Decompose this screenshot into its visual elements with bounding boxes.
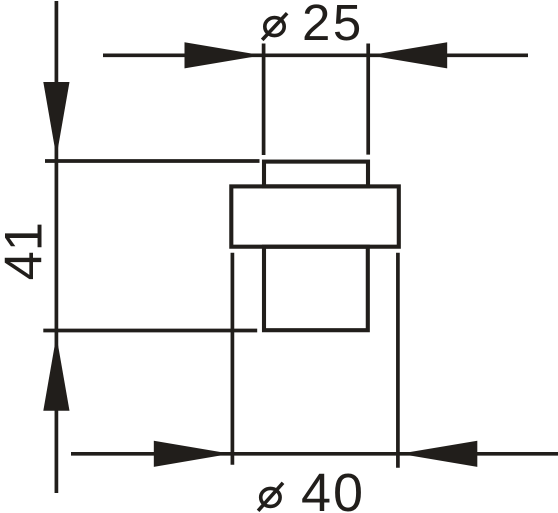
extension line o25 right (366, 44, 370, 155)
part outline: lower neck (buffer) (264, 247, 368, 331)
dimension line o40 (horizontal, bottom) (71, 452, 558, 456)
arrowhead o40 right (400, 441, 478, 467)
extension line o25 left (262, 44, 266, 156)
diameter symbol of o40 label (258, 483, 283, 511)
extension line o40 right (396, 253, 400, 468)
svg-text:40: 40 (301, 463, 365, 513)
arrowhead o25 right (370, 42, 447, 68)
dimension line 41 (vertical, left) (55, 1, 59, 493)
part outline: upper neck (o25 spigot) (264, 162, 368, 187)
arrowhead o40 left (154, 441, 231, 467)
svg-text:25: 25 (302, 0, 364, 51)
extension line 41 top (45, 159, 260, 163)
arrowhead 41 up (43, 336, 69, 411)
extension line o40 left (231, 253, 235, 465)
extension line 41 bottom (43, 329, 257, 333)
part outline: flange (o40 body) (231, 186, 398, 246)
dimension line o25 (horizontal, top) (103, 53, 528, 57)
diameter symbol of o25 label (262, 13, 287, 40)
arrowhead o25 left (185, 42, 263, 68)
svg-text:41: 41 (0, 222, 54, 280)
arrowhead 41 down (43, 82, 69, 157)
